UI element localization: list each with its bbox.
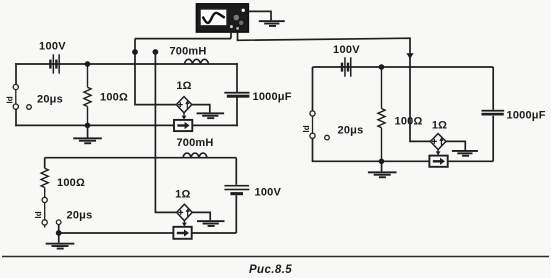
svg-text:20μs: 20μs <box>67 210 93 222</box>
wire probe branch to E3 <box>410 67 431 141</box>
wire S2 throw to node <box>58 225 60 234</box>
current sensor X1 <box>174 120 192 131</box>
arrow probe into right circuit <box>406 53 413 59</box>
ground G6 <box>368 162 397 179</box>
svg-text:1000μF: 1000μF <box>253 91 292 103</box>
node probe A <box>132 49 138 55</box>
svg-text:Id: Id <box>302 125 311 132</box>
wire R left rail lower <box>313 138 494 161</box>
wire TL left rail lower <box>15 109 17 126</box>
current sensor X2 <box>173 227 191 239</box>
wire R top rail <box>313 66 494 68</box>
oscilloscope U1 <box>196 4 248 32</box>
resistor R2 <box>41 168 48 197</box>
svg-text:100Ω: 100Ω <box>57 177 85 189</box>
resistor R3 <box>378 67 385 161</box>
switch S1 <box>13 84 31 109</box>
node R bottom <box>379 159 385 165</box>
wire LL right rail lower <box>235 195 237 233</box>
wire scope probe A horizontal <box>135 38 231 40</box>
wire scope probe B vertical <box>155 52 176 212</box>
node R top <box>379 64 385 70</box>
wire LL top rail <box>45 157 237 159</box>
ground G4 <box>46 233 75 250</box>
figure rule <box>2 256 549 258</box>
wire LL left rail upper <box>44 158 46 169</box>
svg-text:1Ω: 1Ω <box>175 189 190 201</box>
wire scope probe A vertical <box>135 39 177 105</box>
svg-text:20μs: 20μs <box>37 94 63 106</box>
arrow E2 to sensor <box>182 221 187 227</box>
svg-text:Id: Id <box>34 211 43 218</box>
node TL top <box>85 61 91 67</box>
ground G1 <box>259 20 285 27</box>
wire TL left rail upper <box>15 64 17 85</box>
svg-text:Рис.8.5: Рис.8.5 <box>249 264 292 276</box>
wire TL top rail <box>16 63 237 65</box>
arrow E1 to sensor <box>182 113 187 120</box>
ground G5 <box>197 220 225 227</box>
node LL <box>56 230 62 236</box>
arrow E3 to sensor <box>436 150 441 156</box>
inductor L2 700mH <box>183 153 207 158</box>
switch S2 <box>42 197 61 227</box>
capacitor C1 1000uF <box>224 92 249 98</box>
op source E2 diamond <box>177 204 193 221</box>
svg-text:100V: 100V <box>39 41 66 53</box>
wire E2 to ground <box>192 212 210 220</box>
op source E1 diamond <box>176 97 192 113</box>
capacitor C2 1000uF <box>482 110 505 116</box>
svg-text:100Ω: 100Ω <box>100 92 128 104</box>
ground G2 <box>197 112 225 119</box>
ground G3 <box>73 126 102 144</box>
wire E3 to ground <box>446 141 465 150</box>
svg-text:1Ω: 1Ω <box>432 120 447 132</box>
wire R right rail lower <box>492 116 494 162</box>
wire R left rail upper <box>312 67 314 111</box>
current sensor X3 <box>429 156 447 167</box>
wire R right rail upper <box>492 67 494 110</box>
svg-text:Id: Id <box>6 96 15 103</box>
wire scope lead A stub <box>230 32 232 39</box>
svg-text:700mH: 700mH <box>169 45 206 57</box>
wire LL right rail upper <box>235 158 237 185</box>
svg-text:100V: 100V <box>255 187 282 199</box>
switch S3 <box>310 111 329 140</box>
battery V2 100V <box>341 57 352 76</box>
op source E3 diamond <box>430 134 446 150</box>
resistor R1 <box>84 66 91 124</box>
wire LL bottom rail <box>59 232 237 234</box>
svg-text:100V: 100V <box>333 44 360 56</box>
battery V3 100V <box>224 185 249 195</box>
node probe B <box>153 49 159 55</box>
battery V1 100V <box>49 54 60 73</box>
wire TL right rail upper <box>236 64 238 92</box>
wire TL right rail lower <box>236 98 238 126</box>
ground G7 <box>452 150 478 157</box>
svg-text:1000μF: 1000μF <box>507 110 546 122</box>
svg-text:700mH: 700mH <box>176 137 213 149</box>
svg-text:20μs: 20μs <box>338 125 364 137</box>
svg-text:100Ω: 100Ω <box>395 116 423 128</box>
wire scope lead B stub <box>238 32 411 67</box>
wire scope to ground <box>248 11 271 20</box>
svg-text:1Ω: 1Ω <box>176 80 191 92</box>
inductor L1 700mH <box>185 59 209 64</box>
node TL bottom <box>85 123 91 129</box>
wire E1 to ground <box>192 105 210 113</box>
wire TL bottom rail <box>16 124 237 126</box>
